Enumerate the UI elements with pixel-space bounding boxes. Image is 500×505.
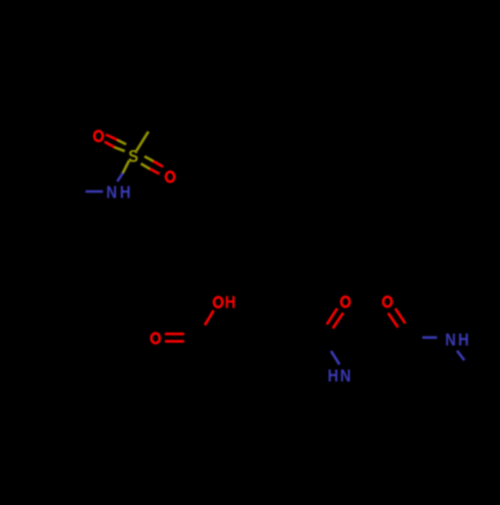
svg-text:H: H <box>458 330 469 349</box>
svg-text:H: H <box>328 366 339 385</box>
svg-text:N: N <box>106 183 117 202</box>
svg-text:N: N <box>445 330 456 349</box>
svg-text:N: N <box>340 366 351 385</box>
svg-text:H: H <box>120 183 131 202</box>
svg-text:H: H <box>225 293 236 312</box>
svg-text:S: S <box>128 147 138 166</box>
